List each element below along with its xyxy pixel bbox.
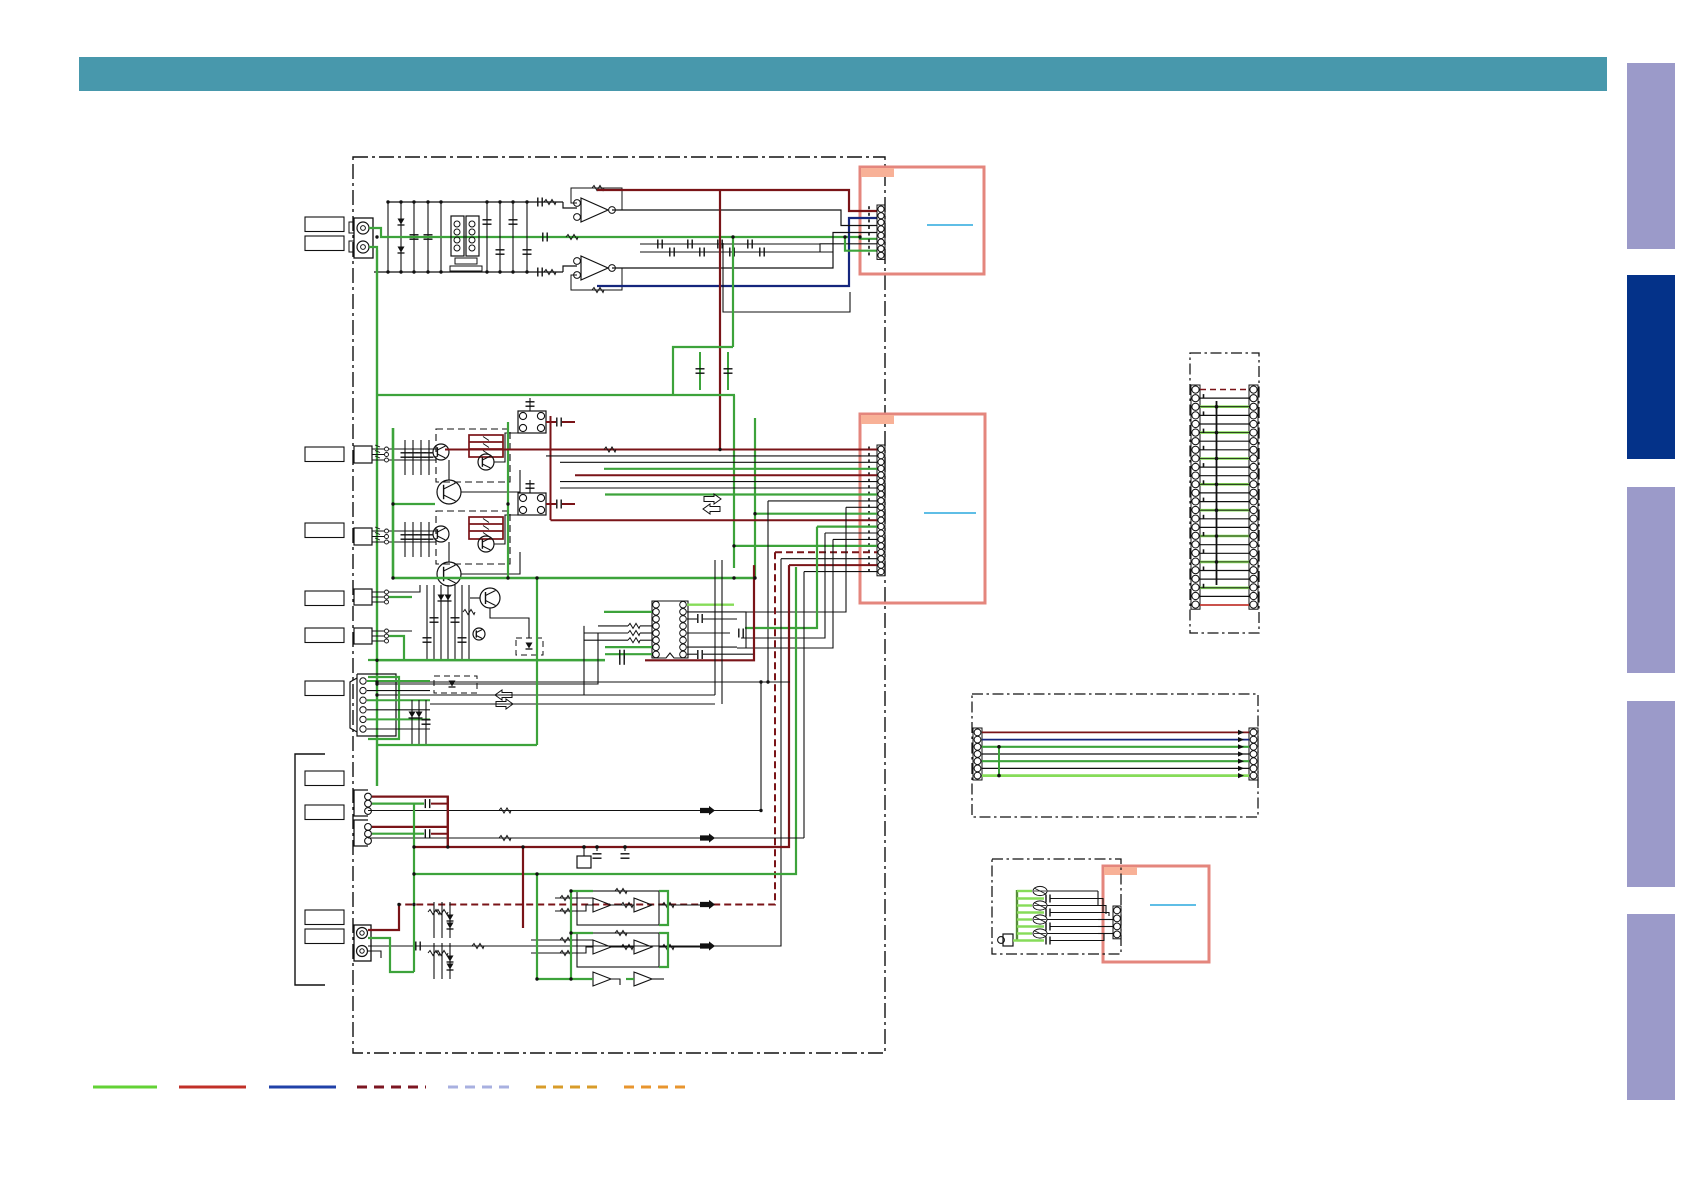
legend — [93, 1086, 692, 1089]
label OUTPUT L — [305, 910, 344, 925]
mic wiring — [389, 585, 420, 592]
sidebar tab 2 active — [1627, 275, 1675, 459]
sidebar tab 3 — [1627, 487, 1675, 673]
CN101 pin ticks — [868, 206, 870, 209]
MIDI wires — [372, 797, 448, 847]
black down v2 — [803, 572, 805, 838]
connector CN302 out — [1113, 906, 1121, 939]
black long 682 — [377, 681, 790, 683]
capacitor C2 — [1017, 911, 1044, 913]
amp row 2 — [577, 933, 659, 967]
top rail — [388, 201, 563, 203]
cap C102 — [424, 235, 433, 239]
cap C152 — [724, 369, 733, 373]
capacitor C3 — [1017, 925, 1044, 927]
U301 right wiring — [687, 604, 734, 606]
black wire opamp2 out — [612, 233, 877, 269]
junction stub flat cable — [998, 747, 1000, 776]
flat cable pin arrows — [1238, 730, 1244, 735]
photocoupler PCA — [518, 411, 546, 433]
resistors to U301 — [628, 623, 640, 628]
CN201 pin ticks — [868, 447, 870, 450]
label MIDI OUT — [305, 805, 344, 820]
maroon link relays — [550, 416, 552, 520]
channel B jack — [354, 528, 372, 545]
maroon drop — [719, 190, 721, 450]
shield box — [723, 243, 850, 312]
relay K301 — [577, 856, 591, 868]
green bus filter board — [1016, 890, 1019, 941]
dashed maroon down — [399, 552, 775, 904]
callout box CN101 — [860, 167, 984, 274]
black down v1 — [368, 559, 781, 946]
flat cable wires — [982, 731, 1249, 733]
channel B wiring — [448, 542, 450, 562]
green vertical MIDI — [413, 804, 415, 905]
black wire opamp1 out — [612, 210, 877, 226]
green rails mic — [368, 659, 605, 661]
resistor on maroon pin1 wire — [604, 447, 616, 452]
pin stubs tall box — [1203, 394, 1205, 588]
channel B dashed box — [436, 511, 510, 564]
main board outline — [353, 157, 885, 1053]
bus spine tall box — [1216, 401, 1218, 585]
long line arrows row2 — [368, 837, 804, 839]
post transformer verticals — [486, 202, 488, 272]
bottom rail — [374, 271, 563, 273]
green frame channel A/B — [392, 428, 395, 578]
channel B cap bank — [404, 522, 406, 557]
opamp IC101b — [581, 256, 608, 280]
green loop with caps — [732, 237, 734, 347]
channel B input wires — [389, 530, 436, 532]
dashed box D301 — [516, 638, 543, 655]
wires to connector filter board — [1097, 891, 1099, 906]
staircase left — [377, 626, 584, 695]
connector CN201 strip — [877, 445, 885, 576]
wiring q301 — [470, 597, 480, 599]
feedback loop bottom — [571, 268, 622, 290]
header bar — [79, 57, 1607, 91]
channel A wiring — [448, 460, 450, 480]
connector MIDI IN — [354, 790, 368, 816]
sidebar tab 5 — [1627, 914, 1675, 1100]
amp row 1 — [577, 891, 659, 925]
maroon 847 branches — [522, 847, 524, 928]
label PHONES A — [305, 447, 344, 462]
callout box CN301 — [1103, 866, 1209, 962]
MIC jack 2 — [354, 628, 372, 644]
ferrite bead FB4 — [1017, 932, 1032, 934]
maroon wire to CN101 pin1 — [597, 190, 877, 211]
series caps on signal — [538, 198, 542, 207]
channel A input wires — [389, 448, 436, 450]
label PHONES B — [305, 523, 344, 538]
green under IC — [377, 659, 605, 661]
component bank mic — [426, 585, 428, 660]
green to pin7 — [845, 237, 877, 251]
junction dots — [386, 200, 389, 203]
transistor Q302 — [473, 628, 485, 640]
cap C101 — [410, 235, 419, 239]
label MIDI IN — [305, 771, 344, 786]
connector CN101 strip — [877, 205, 885, 259]
long green mid drop — [733, 395, 735, 568]
sidebar tab 4 — [1627, 701, 1675, 887]
maroon RCA in — [368, 905, 399, 931]
sidebar tab 1 — [1627, 63, 1675, 249]
green wires to U301 — [604, 611, 652, 613]
bundle left turns down — [767, 501, 769, 682]
diode clusters — [433, 902, 435, 938]
transistor QB3 — [437, 562, 461, 586]
resistor ladder channel B — [469, 517, 503, 539]
hollow arrows mid — [704, 494, 721, 504]
filter board outline — [992, 859, 1121, 954]
connector J401 RCA pair out — [354, 925, 371, 961]
diode D102 — [398, 247, 405, 253]
flat cable board outline — [972, 694, 1258, 817]
ferrite bead FB1 — [1017, 890, 1032, 892]
transistor Q301 — [480, 588, 500, 608]
opamp IC101a — [581, 198, 608, 222]
daughter board outline right — [1190, 353, 1259, 633]
transistor QA2 — [478, 454, 494, 470]
green down v — [414, 567, 796, 874]
label ANALOG IN L — [305, 217, 344, 232]
green outline J351 — [368, 677, 399, 739]
connector MIDI OUT — [354, 820, 368, 846]
transistor QB1 — [433, 526, 449, 542]
output network — [368, 938, 414, 972]
post network rows — [640, 251, 833, 253]
wire bundle to CN201 — [445, 449, 877, 451]
transformer T101 — [451, 216, 464, 256]
callout box CN201 — [860, 414, 985, 603]
green frame right amp — [659, 891, 668, 925]
resistor ladder channel A — [469, 435, 503, 457]
ribbon wires tall box — [1200, 390, 1249, 606]
arrows bottom rows — [700, 900, 715, 909]
green bottom rail foot — [377, 744, 537, 746]
green input wire L — [369, 228, 860, 237]
long line arrows row1 — [368, 682, 761, 811]
maroon under IC — [645, 565, 754, 660]
label ANALOG IN R — [305, 236, 344, 251]
green to pin5 — [860, 237, 877, 239]
transistor QA1 — [433, 444, 449, 460]
IC U301 — [652, 601, 688, 658]
green bus left drop — [376, 250, 378, 786]
input network verticals — [387, 202, 389, 272]
spine junction dots — [1215, 405, 1219, 409]
label FOOT SW — [305, 681, 344, 696]
ferrite bead FB3 — [1017, 918, 1032, 920]
diode D101 — [398, 219, 405, 225]
ferrite bead FB2 — [1017, 904, 1032, 906]
component bank foot — [411, 700, 413, 745]
transistor QA3 — [437, 480, 461, 504]
label OUTPUT R — [305, 929, 344, 944]
cap C151 — [696, 369, 705, 373]
maroon down to 847 — [414, 565, 789, 847]
dashed box D302 — [434, 676, 477, 693]
wires to opamps — [563, 202, 577, 208]
transistor QB2 — [478, 536, 494, 552]
channel A cap bank — [404, 440, 406, 475]
label MIC 2 — [305, 628, 344, 643]
channel A dashed box — [436, 429, 510, 482]
feedback loop top — [571, 188, 622, 210]
connector CN702 right — [1249, 728, 1258, 780]
connector J101 RCA pair — [354, 218, 373, 258]
navy wire to CN101 pin2 — [597, 218, 877, 286]
capacitor C4 — [1017, 939, 1044, 941]
group bracket — [295, 754, 325, 985]
terminal lug E — [1003, 934, 1013, 946]
label MIC 1 — [305, 591, 344, 606]
channel A jack — [354, 446, 372, 463]
green bottom run — [536, 874, 538, 979]
connector J351 multi — [357, 674, 396, 736]
cap on row black — [416, 942, 420, 951]
connector CN701 left — [973, 728, 982, 780]
green verticals out — [413, 905, 415, 973]
connector CN602 strip — [1249, 385, 1258, 609]
amp row 3 — [593, 972, 611, 986]
MIC jack 1 — [354, 589, 372, 605]
J351 wires — [367, 680, 430, 682]
foot sw signal lines — [430, 694, 715, 696]
capacitor C1 — [1017, 897, 1044, 899]
connector CN601 strip — [1191, 385, 1200, 609]
photocoupler PCB — [518, 493, 546, 515]
